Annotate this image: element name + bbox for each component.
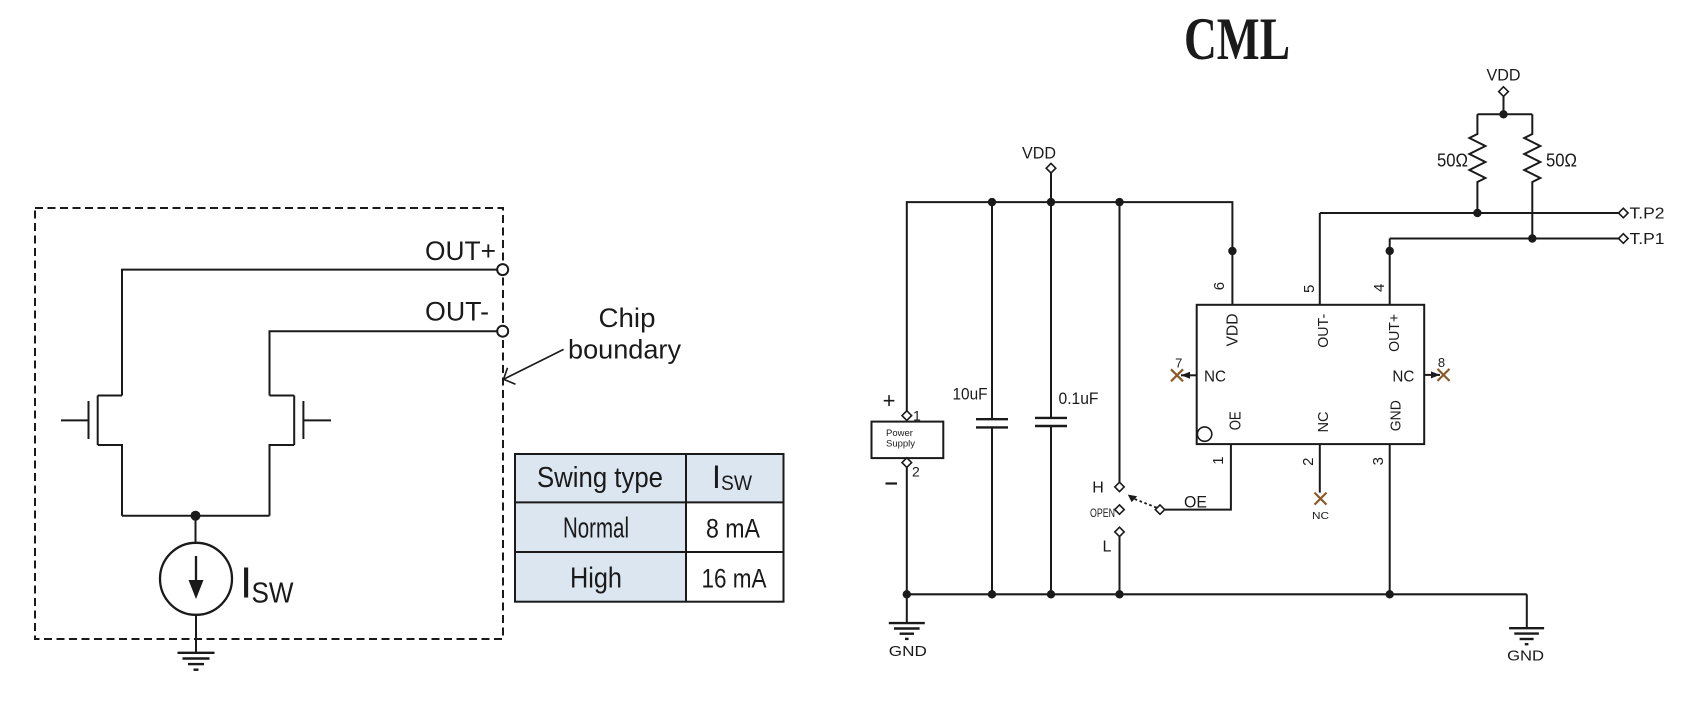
wire ground rail bbox=[907, 593, 1527, 595]
svg-text:NC: NC bbox=[1315, 411, 1332, 432]
svg-text:2: 2 bbox=[912, 464, 920, 480]
terminal T.P1 bbox=[1619, 234, 1629, 244]
svg-text:OUT-: OUT- bbox=[1315, 314, 1332, 348]
node rail PS bbox=[903, 590, 911, 598]
svg-text:SW: SW bbox=[252, 578, 295, 610]
pin 3 wire bbox=[1389, 444, 1391, 594]
svg-text:H: H bbox=[1092, 480, 1104, 497]
terminal PS 1 bbox=[902, 411, 912, 421]
node pin4 wire bbox=[1386, 247, 1394, 255]
pin 2 wire bbox=[1319, 444, 1321, 493]
svg-text:I: I bbox=[240, 559, 252, 608]
svg-text:0.1uF: 0.1uF bbox=[1059, 389, 1099, 408]
wire switch L to rail bbox=[1119, 537, 1121, 595]
wire OUT+ bbox=[122, 270, 497, 396]
terminal OUT+ bbox=[497, 264, 508, 275]
wire PS to rail bottom bbox=[906, 467, 908, 594]
wire VDD right bbox=[1503, 96, 1505, 114]
node R1 to TP2 bbox=[1473, 209, 1481, 217]
svg-text:6: 6 bbox=[1211, 282, 1228, 290]
power supply box bbox=[872, 422, 944, 459]
wire pin4 to TP1 bbox=[1389, 239, 1391, 305]
wire VDD left bbox=[1050, 173, 1052, 202]
wire to current source bbox=[195, 516, 197, 543]
terminal VDD right bbox=[1499, 87, 1509, 97]
svg-text:OUT+: OUT+ bbox=[425, 236, 496, 266]
svg-text:T.P1: T.P1 bbox=[1630, 231, 1665, 248]
node pin6 wire bbox=[1228, 247, 1236, 255]
ground chip bbox=[178, 653, 215, 670]
node rail switch bbox=[1115, 198, 1123, 206]
wire T.P1 bbox=[1390, 238, 1619, 240]
node rail C1 bottom bbox=[988, 590, 996, 598]
node R2 to TP1 bbox=[1528, 234, 1536, 242]
node rail C1 bbox=[988, 198, 996, 206]
svg-text:4: 4 bbox=[1371, 284, 1388, 292]
node rail pin3 bbox=[1386, 590, 1394, 598]
svg-text:8: 8 bbox=[1438, 355, 1445, 370]
terminal switch OPEN bbox=[1115, 505, 1124, 514]
IC U1 body bbox=[1197, 305, 1425, 444]
transistor M2 bbox=[270, 396, 332, 516]
svg-text:High: High bbox=[570, 562, 622, 594]
svg-text:Normal: Normal bbox=[563, 512, 629, 544]
svg-text:10uF: 10uF bbox=[953, 385, 988, 404]
svg-text:3: 3 bbox=[1370, 457, 1387, 465]
resistor R2 50ohm bbox=[1524, 114, 1540, 238]
svg-text:1: 1 bbox=[1210, 456, 1227, 464]
wire pin5 to TP2 bbox=[1319, 213, 1321, 305]
svg-text:L: L bbox=[1103, 539, 1112, 556]
svg-text:Supply: Supply bbox=[886, 439, 915, 450]
wire to GND left bbox=[906, 594, 908, 623]
resistor R1 50ohm bbox=[1469, 114, 1485, 213]
svg-text:CML: CML bbox=[1184, 6, 1290, 72]
no-connect X pin7 bbox=[1171, 369, 1183, 381]
node rail switch bottom bbox=[1115, 590, 1123, 598]
terminal PS 2 bbox=[902, 458, 912, 468]
svg-text:NC: NC bbox=[1312, 510, 1329, 522]
svg-text:OUT+: OUT+ bbox=[1386, 314, 1403, 352]
no-connect X pin8 bbox=[1438, 369, 1450, 381]
svg-text:VDD: VDD bbox=[1487, 66, 1521, 85]
chip boundary dashed box bbox=[35, 208, 503, 639]
wire to GND right bbox=[1526, 594, 1528, 628]
svg-text:8 mA: 8 mA bbox=[706, 513, 760, 543]
terminal switch H bbox=[1115, 482, 1124, 491]
svg-text:5: 5 bbox=[1301, 285, 1318, 293]
svg-text:50Ω: 50Ω bbox=[1437, 151, 1468, 171]
current source ISW bbox=[160, 543, 232, 615]
node rail C2 bottom bbox=[1047, 590, 1055, 598]
arrow to boundary bbox=[504, 349, 564, 384]
label minus bbox=[886, 482, 898, 484]
node rail VDD bbox=[1047, 198, 1055, 206]
svg-text:16 mA: 16 mA bbox=[702, 563, 767, 593]
switch blade bbox=[1134, 499, 1157, 508]
transistor M1 bbox=[61, 396, 122, 516]
terminal switch common bbox=[1155, 505, 1164, 514]
wire T.P2 bbox=[1320, 212, 1619, 214]
svg-text:VDD: VDD bbox=[1022, 144, 1056, 163]
svg-text:OE: OE bbox=[1228, 411, 1245, 430]
wire resistor bridge bbox=[1477, 113, 1532, 115]
node tail junction bbox=[191, 511, 201, 521]
svg-text:OPEN: OPEN bbox=[1090, 508, 1115, 520]
ground GND left bbox=[889, 623, 925, 639]
IC OE bubble bbox=[1197, 427, 1211, 441]
svg-text:NC: NC bbox=[1204, 368, 1226, 385]
table swing type bbox=[515, 454, 784, 602]
terminal T.P2 bbox=[1619, 208, 1629, 218]
svg-text:boundary: boundary bbox=[568, 335, 681, 365]
svg-text:OE: OE bbox=[1184, 493, 1207, 512]
wire rail to switch H bbox=[1119, 202, 1121, 482]
svg-text:7: 7 bbox=[1175, 356, 1182, 371]
svg-text:GND: GND bbox=[1388, 400, 1405, 431]
wire OE to pin1 bbox=[1165, 444, 1231, 510]
wire to ground bbox=[195, 615, 197, 653]
svg-text:50Ω: 50Ω bbox=[1546, 151, 1577, 171]
svg-text:T.P2: T.P2 bbox=[1630, 206, 1665, 223]
pin 7 stub bbox=[1181, 374, 1197, 376]
terminal VDD left bbox=[1046, 163, 1056, 173]
svg-text:OUT-: OUT- bbox=[425, 297, 489, 327]
capacitor C1 10uF bbox=[991, 202, 993, 419]
ground GND right bbox=[1509, 628, 1544, 644]
wire OUT- bbox=[270, 331, 498, 395]
svg-text:I: I bbox=[712, 459, 721, 495]
svg-text:Swing type: Swing type bbox=[537, 462, 663, 494]
svg-text:VDD: VDD bbox=[1225, 314, 1242, 347]
terminal switch L bbox=[1115, 527, 1124, 536]
no-connect X pin2 bbox=[1315, 493, 1327, 505]
svg-text:GND: GND bbox=[1507, 648, 1544, 665]
svg-text:NC: NC bbox=[1392, 368, 1414, 385]
pin 8 stub bbox=[1424, 374, 1440, 376]
svg-text:GND: GND bbox=[889, 643, 927, 660]
svg-text:2: 2 bbox=[1300, 458, 1317, 466]
terminal OUT- bbox=[497, 326, 508, 337]
svg-text:Power: Power bbox=[886, 428, 913, 439]
svg-text:SW: SW bbox=[721, 472, 752, 495]
capacitor C2 0.1uF bbox=[1050, 202, 1052, 417]
wire common source bbox=[122, 515, 270, 517]
svg-text:+: + bbox=[883, 388, 896, 413]
node VDD-R junction bbox=[1499, 110, 1507, 118]
wire VDD top rail bbox=[907, 202, 1233, 411]
svg-text:Chip: Chip bbox=[599, 303, 656, 333]
